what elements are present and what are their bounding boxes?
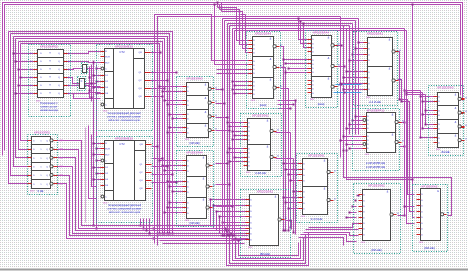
svg-text:&: &: [389, 66, 391, 70]
svg-text:&: &: [324, 158, 326, 162]
svg-text:Q: Q: [58, 93, 60, 95]
svg-text:КР1533ЛА4: КР1533ЛА4: [186, 150, 202, 154]
svg-text:КР1533ЛА2: КР1533ЛА2: [257, 189, 273, 193]
svg-text:&: &: [437, 189, 439, 193]
svg-text:DD1: DD1: [251, 100, 256, 102]
svg-text:&: &: [328, 77, 330, 81]
svg-text:&: &: [203, 176, 205, 180]
svg-text:ECT: ECT: [105, 155, 110, 157]
svg-text:DD1: DD1: [36, 100, 41, 102]
svg-text:[3И-НЕ]: [3И-НЕ]: [190, 221, 200, 225]
svg-text:кой в сост. логического нуля: кой в сост. логического нуля: [108, 119, 140, 122]
svg-text:&: &: [328, 56, 330, 60]
svg-text:КР1533ЛА4: КР1533ЛА4: [255, 31, 271, 35]
svg-text:КР1533ЛР11: КР1533ЛР11: [367, 108, 385, 112]
svg-text:DD1: DD1: [248, 247, 253, 249]
svg-text:DD1: DD1: [361, 242, 366, 244]
svg-text:&: &: [392, 112, 394, 116]
svg-text:DD3: DD3: [30, 190, 35, 192]
svg-text:ПР: ПР: [60, 173, 64, 177]
svg-text:Q: Q: [58, 61, 60, 63]
svg-text:DD1: DD1: [301, 216, 306, 218]
svg-text:КР1533ЛА4: КР1533ЛА4: [313, 30, 329, 34]
svg-text:&: &: [270, 36, 272, 40]
svg-text:[8И-НЕ]: [8И-НЕ]: [260, 252, 270, 256]
svg-text:2-4 И-НЕ: 2-4 И-НЕ: [311, 217, 323, 221]
svg-text:ПР: ПР: [60, 139, 64, 143]
svg-text:DD1: DD1: [310, 99, 315, 101]
svg-text:&: &: [203, 197, 205, 201]
svg-text:КР1533ИЕ10: КР1533ИЕ10: [115, 136, 133, 140]
svg-text:Q: Q: [58, 69, 60, 71]
svg-text:&: &: [387, 189, 389, 193]
svg-text:ECR: ECR: [105, 149, 110, 151]
svg-text:&: &: [267, 144, 269, 148]
svg-text:CT2: CT2: [119, 142, 125, 146]
svg-text:DD1: DD1: [419, 242, 424, 244]
svg-text:КР1533ЛА2: КР1533ЛА2: [368, 183, 384, 187]
svg-text:DD1: DD1: [436, 149, 441, 151]
svg-text:&: &: [205, 96, 207, 100]
svg-text:ПР: ПР: [60, 165, 64, 169]
svg-text:КР1533ЛА1: КР1533ЛА1: [308, 153, 324, 157]
svg-text:ECR: ECR: [105, 57, 110, 59]
svg-text:ПР: ПР: [60, 147, 64, 151]
svg-text:&: &: [455, 106, 457, 110]
svg-text:тремя состоя-: тремя состоя-: [40, 106, 58, 109]
svg-text:КР1533ЛА2: КР1533ЛА2: [252, 113, 268, 117]
svg-text:C: C: [81, 80, 83, 83]
svg-text:6 НЕ: 6 НЕ: [38, 189, 44, 193]
svg-text:QR: QR: [139, 52, 143, 54]
svg-text:[4И-НЕ]: [4И-НЕ]: [190, 141, 200, 145]
svg-text:CT2: CT2: [119, 50, 125, 54]
svg-text:[имя]: [имя]: [318, 102, 325, 106]
svg-text:&: &: [392, 132, 394, 136]
svg-text:Q: Q: [58, 77, 60, 79]
svg-text:&: &: [205, 82, 207, 86]
svg-text:Четырехразрядный двоичный: Четырехразрядный двоичный: [108, 204, 142, 207]
svg-text:DD1: DD1: [366, 97, 371, 99]
svg-text:[8И-НЕ]: [8И-НЕ]: [425, 246, 435, 250]
svg-text:DD1: DD1: [246, 172, 251, 174]
svg-text:[имя]: [имя]: [260, 103, 267, 107]
svg-text:&: &: [389, 37, 391, 41]
svg-text:&: &: [455, 120, 457, 124]
svg-text:КР1533ИЕ10: КР1533ИЕ10: [115, 44, 133, 48]
svg-text:DD1: DD1: [365, 154, 370, 156]
svg-text:&: &: [328, 35, 330, 39]
svg-text:Четырехразрядный двоичный: Четырехразрядный двоичный: [107, 112, 141, 115]
svg-text:&: &: [324, 186, 326, 190]
svg-text:&: &: [203, 155, 205, 159]
svg-text:DD1: DD1: [185, 220, 190, 222]
svg-text:&: &: [275, 194, 277, 198]
svg-text:Q: Q: [58, 85, 60, 87]
svg-text:КР1533ЛА3: КР1533ЛА3: [186, 76, 202, 80]
svg-text:ниями выхода: ниями выхода: [40, 109, 58, 112]
svg-text:QR: QR: [140, 144, 144, 146]
svg-text:Q: Q: [58, 53, 60, 55]
svg-text:&: &: [205, 124, 207, 128]
svg-text:&: &: [270, 78, 272, 82]
svg-text:КР1533ЛА1: КР1533ЛА1: [367, 31, 383, 35]
svg-text:2-2И-2ИЛИ-НЕ: 2-2И-2ИЛИ-НЕ: [366, 165, 385, 169]
svg-text:КР1533ЛА3: КР1533ЛА3: [437, 85, 453, 89]
svg-text:[8И-НЕ]: [8И-НЕ]: [372, 248, 382, 252]
svg-text:2-4 И-НЕ: 2-4 И-НЕ: [369, 100, 381, 104]
svg-text:ЛА/НЕ: ЛА/НЕ: [441, 150, 449, 154]
svg-text:DD1: DD1: [185, 139, 190, 141]
svg-text:8 компонент с: 8 компонент с: [40, 101, 58, 105]
svg-text:счетчик с синхронной установ-: счетчик с синхронной установ-: [107, 116, 141, 119]
svg-text:КР1533ЛА2: КР1533ЛА2: [421, 184, 437, 188]
svg-text:КР1533ИР22: КР1533ИР22: [40, 44, 58, 48]
svg-text:&: &: [205, 110, 207, 114]
svg-text:2-4И-НЕ: 2-4И-НЕ: [255, 171, 266, 175]
svg-text:&: &: [455, 134, 457, 138]
svg-text:КР1533ТЛ2: КР1533ТЛ2: [34, 130, 50, 134]
svg-text:&: &: [267, 118, 269, 122]
svg-text:ECT: ECT: [105, 63, 110, 65]
svg-text:&: &: [455, 92, 457, 96]
svg-text:&: &: [270, 57, 272, 61]
svg-text:ПР: ПР: [60, 182, 64, 186]
svg-text:кой в сост. логического нуля: кой в сост. логического нуля: [109, 211, 141, 214]
svg-text:ПР: ПР: [60, 156, 64, 160]
svg-text:счетчик с синхронной установ-: счетчик с синхронной установ-: [107, 208, 141, 211]
